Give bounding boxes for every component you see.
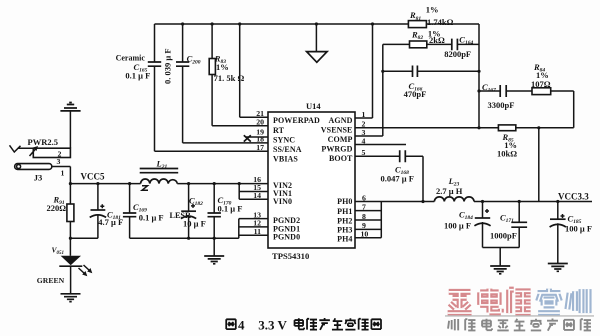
- svg-text:8200pF: 8200pF: [444, 49, 471, 59]
- no-connect X on SYNC pin19: [246, 136, 268, 138]
- svg-text:SYNC: SYNC: [273, 135, 295, 144]
- svg-text:1000pF: 1000pF: [490, 230, 517, 240]
- wire BOOT row + capacitor C168: [355, 156, 423, 201]
- svg-text:0. 039 μ F: 0. 039 μ F: [163, 48, 173, 84]
- svg-text:SS/ENA: SS/ENA: [273, 145, 302, 154]
- svg-text:1: 1: [61, 168, 65, 177]
- svg-text:VBIAS: VBIAS: [273, 154, 298, 163]
- switch arrow inside J3: [30, 149, 36, 156]
- svg-text:4.7 μ F: 4.7 μ F: [98, 217, 123, 227]
- svg-text:Ceramic: Ceramic: [116, 54, 146, 63]
- pin numbers left: [253, 109, 264, 236]
- capacitor C164: [452, 39, 458, 51]
- wire AGND top rail: [155, 23, 480, 25]
- svg-text:4: 4: [362, 136, 366, 145]
- resistor R84: [532, 88, 551, 95]
- ground top-left (above J3): [60, 103, 80, 111]
- svg-text:PWRGD: PWRGD: [321, 144, 352, 153]
- svg-text:3: 3: [57, 157, 61, 166]
- svg-text:1.74kΩ: 1.74kΩ: [427, 17, 454, 27]
- caption 图4 3.3V 电源产生原理图: [226, 319, 236, 329]
- wire SS/ENA pin18: [183, 142, 268, 144]
- svg-text:220Ω: 220Ω: [47, 203, 67, 213]
- wire C184/C171 ground bus: [483, 248, 520, 267]
- watermark subtitle: [448, 318, 591, 330]
- node dots on top rail: [181, 22, 184, 25]
- wire R91 to C181 bottom: [70, 237, 98, 239]
- wire COMP vertical: [355, 44, 383, 136]
- svg-text:4: 4: [238, 318, 245, 333]
- svg-text:10kΩ: 10kΩ: [497, 149, 517, 159]
- ground under C170: [213, 238, 215, 256]
- ground under LED: [61, 294, 81, 302]
- svg-text:U14: U14: [306, 101, 321, 111]
- capacitor C200: [182, 24, 184, 143]
- svg-text:GREEN: GREEN: [37, 276, 65, 285]
- wire VBIAS pin17: [155, 150, 269, 152]
- capacitor C182 polarized LESR: [188, 184, 190, 239]
- watermark big characters: [448, 289, 589, 313]
- resistor R81: [408, 21, 426, 28]
- wire PGND bus: [239, 219, 268, 239]
- ground AGND open-triangle symbol: [315, 24, 317, 52]
- op-amp/regulator U14 TPS54310 body: [268, 112, 355, 248]
- wire pin1 to VCC5: [52, 167, 71, 184]
- svg-text:1%: 1%: [216, 62, 229, 72]
- svg-text:J3: J3: [34, 173, 43, 183]
- svg-text:VIN0: VIN0: [273, 197, 292, 206]
- svg-text:6: 6: [362, 193, 366, 202]
- svg-text:10: 10: [361, 230, 369, 239]
- svg-text:7: 7: [362, 202, 366, 211]
- wire R85 node down to output rail: [538, 128, 540, 202]
- watermark underline: [445, 315, 594, 317]
- svg-text:COMP: COMP: [328, 135, 353, 144]
- svg-text:2kΩ: 2kΩ: [429, 35, 445, 45]
- LED light arrows: [79, 265, 91, 274]
- wire input ground bus: [130, 237, 239, 239]
- svg-text:3.3 V: 3.3 V: [258, 318, 287, 333]
- resistor R82: [410, 41, 427, 48]
- svg-text:100 μ F: 100 μ F: [444, 221, 471, 231]
- svg-text:3300pF: 3300pF: [488, 100, 515, 110]
- svg-text:5: 5: [362, 148, 366, 157]
- svg-text:8: 8: [362, 212, 366, 221]
- wire VSENSE row: [355, 127, 574, 129]
- inductor L23: [434, 197, 474, 202]
- LED V051: [69, 238, 71, 256]
- wire VIN bus: [239, 184, 268, 200]
- resistor R91: [69, 184, 71, 239]
- wire PWRGD stub: [355, 144, 406, 146]
- capacitor C167 row: [479, 90, 532, 92]
- resistor R85: [498, 125, 515, 131]
- wire RT pin20: [212, 125, 268, 127]
- svg-text:VCC3.3: VCC3.3: [558, 191, 589, 201]
- svg-text:107Ω: 107Ω: [531, 79, 551, 89]
- svg-text:0.047 μ F: 0.047 μ F: [381, 174, 414, 184]
- svg-text:10 μ F: 10 μ F: [183, 218, 206, 228]
- wire pin21 to rail: [240, 24, 268, 117]
- svg-text:RT: RT: [273, 126, 285, 135]
- inductor L21 with core bars: [140, 169, 179, 173]
- wire pin2 with tip checkmark: [10, 145, 21, 152]
- wire PH bus vertical: [355, 202, 381, 238]
- svg-text:PH4: PH4: [337, 235, 352, 244]
- svg-text:2.7 μ H: 2.7 μ H: [436, 186, 463, 196]
- wire AGND vertical to pin1: [355, 24, 373, 118]
- svg-text:1: 1: [362, 110, 366, 119]
- svg-text:PH3: PH3: [337, 225, 352, 234]
- svg-text:PH1: PH1: [337, 207, 352, 216]
- svg-text:TPS54310: TPS54310: [272, 251, 309, 261]
- J3 sleeve barrel: [15, 164, 52, 170]
- svg-text:1%: 1%: [426, 5, 439, 15]
- capacitor C171: [518, 202, 520, 248]
- svg-text:PH2: PH2: [337, 216, 352, 225]
- svg-text:PWR2.5: PWR2.5: [28, 137, 58, 147]
- wire right compensation vertical: [478, 24, 480, 128]
- wire VCC5 rail: [70, 183, 268, 185]
- wire R82 row: [383, 43, 479, 45]
- svg-text:VSENSE: VSENSE: [321, 126, 353, 135]
- capacitor C184 polarized: [482, 202, 484, 248]
- capacitor C169: [129, 184, 131, 239]
- ground under C184/C171: [490, 266, 510, 274]
- svg-text:0.1 μ F: 0.1 μ F: [218, 203, 243, 213]
- svg-text:0.1 μ F: 0.1 μ F: [125, 71, 150, 81]
- svg-text:0.1 μ F: 0.1 μ F: [139, 212, 164, 222]
- capacitor C185 polarized: [557, 202, 559, 264]
- svg-text:POWERPAD: POWERPAD: [273, 116, 320, 125]
- wire PH rail to inductor: [355, 201, 434, 203]
- svg-text:100 μ F: 100 μ F: [565, 223, 592, 233]
- svg-text:BOOT: BOOT: [329, 154, 353, 163]
- capacitor C170: [213, 184, 215, 239]
- wire VCC3.3 output rail: [474, 201, 592, 203]
- capacitor C165: [154, 24, 156, 151]
- capacitor C181 polarized: [97, 184, 99, 239]
- svg-text:470pF: 470pF: [404, 89, 427, 99]
- pin numbers right: [361, 110, 369, 239]
- svg-text:PGND0: PGND0: [273, 233, 300, 242]
- svg-text:PH0: PH0: [337, 197, 352, 206]
- capacitor C166 row: [383, 70, 479, 72]
- svg-text:AGND: AGND: [329, 116, 353, 125]
- resistor R83: [211, 24, 213, 126]
- ground under C185: [548, 264, 568, 272]
- svg-text:VCC5: VCC5: [81, 172, 105, 182]
